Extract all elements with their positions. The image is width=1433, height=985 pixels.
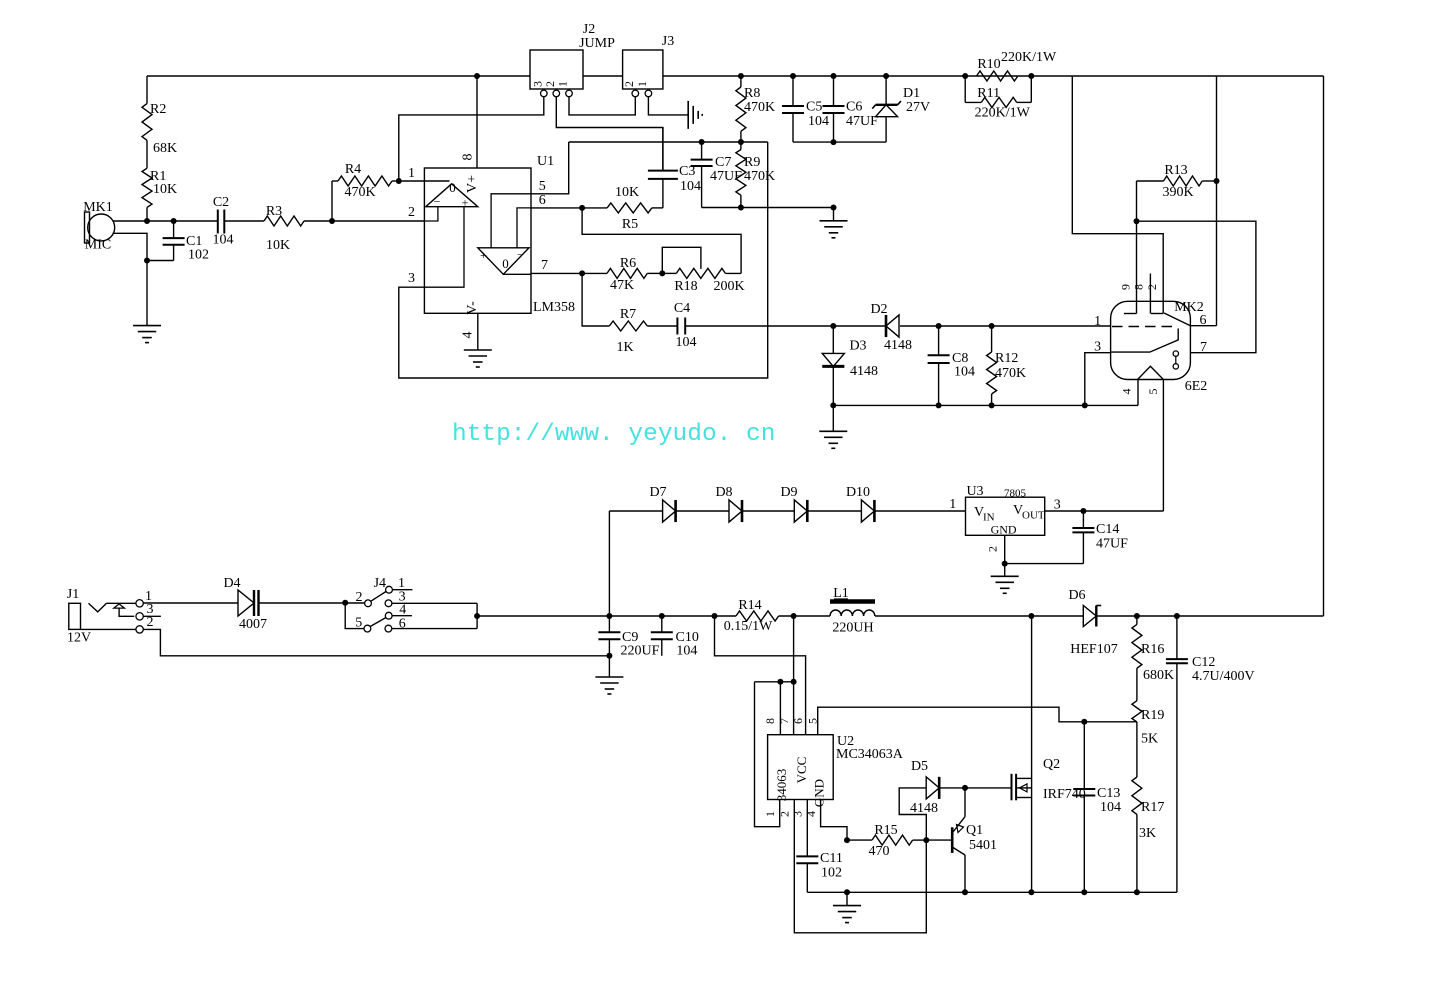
node U3 pin2 gnd <box>1002 561 1008 567</box>
node top rail D1 <box>883 73 889 79</box>
svg-text:104: 104 <box>954 365 975 380</box>
capacitor C12 <box>1166 616 1255 892</box>
svg-text:OUT: OUT <box>1022 510 1045 522</box>
svg-text:4148: 4148 <box>850 364 878 379</box>
ground mic <box>133 261 161 343</box>
diode D8 <box>715 485 742 522</box>
svg-text:104: 104 <box>808 114 829 129</box>
svg-text:R4: R4 <box>345 162 361 177</box>
node C13 bottom <box>1081 889 1087 895</box>
svg-text:3: 3 <box>791 811 805 817</box>
node D2 anode / D3 <box>830 323 836 329</box>
svg-text:7: 7 <box>1200 340 1207 355</box>
svg-text:MC34063A: MC34063A <box>836 747 904 762</box>
wire tube pin1 input <box>900 325 1111 327</box>
mosfet Q2 IRF740 <box>1012 757 1086 802</box>
transistor Q1 5401 <box>926 817 997 893</box>
svg-text:Q2: Q2 <box>1043 757 1060 772</box>
svg-text:4: 4 <box>461 332 476 339</box>
resistor R11 parallel loop <box>965 76 1031 121</box>
node R15 right / Q1 base <box>923 837 929 843</box>
wire tube pin6 to drop <box>1190 325 1216 327</box>
wire J1 pin2 ground run <box>81 629 610 655</box>
chip U2 MC34063A <box>763 718 904 817</box>
svg-text:104: 104 <box>680 179 701 194</box>
node R1 bottom / mic <box>144 218 150 224</box>
ground J3 sideways <box>688 101 702 129</box>
svg-text:0.15/1W: 0.15/1W <box>724 619 773 634</box>
svg-text:D4: D4 <box>223 576 240 591</box>
node C1 top tap <box>171 218 177 224</box>
wire C5/C6/D1 bottom rail <box>793 141 886 143</box>
svg-text:9: 9 <box>1119 284 1133 290</box>
svg-text:220UF: 220UF <box>621 644 660 659</box>
capacitor C3 <box>648 128 701 208</box>
node R15 left <box>844 837 850 843</box>
capacitor C10 <box>651 616 699 659</box>
ground main filter <box>595 656 623 694</box>
connector J1 12V <box>67 587 154 646</box>
svg-text:C4: C4 <box>674 301 690 316</box>
wire tube pin3 <box>1085 353 1111 406</box>
resistor R6 <box>582 256 662 293</box>
svg-text:+: + <box>462 196 469 210</box>
svg-text:R19: R19 <box>1141 708 1164 723</box>
node mic return / C1 bottom <box>144 258 150 264</box>
ground U1 pin 4 <box>461 313 492 367</box>
node R13 right on pin6 drop <box>1214 178 1220 184</box>
wire U1 pin6 <box>531 193 582 208</box>
svg-text:2: 2 <box>147 615 154 630</box>
wire U2 pin2 bottom loop <box>794 800 926 933</box>
wire J3 pin1 to ground <box>648 97 688 115</box>
svg-text:4007: 4007 <box>239 617 267 632</box>
svg-text:2: 2 <box>622 81 636 87</box>
capacitor C9 <box>598 616 659 659</box>
capacitor C4 <box>674 301 697 350</box>
svg-text:470K: 470K <box>344 185 375 200</box>
capacitor C13 <box>1073 722 1121 893</box>
resistor R7 <box>609 307 677 355</box>
diode D7 <box>649 485 675 522</box>
resistor R15 <box>847 823 926 859</box>
svg-text:4.7U/400V: 4.7U/400V <box>1192 669 1255 684</box>
svg-text:1: 1 <box>635 81 649 87</box>
resistor R2 <box>142 76 177 156</box>
regulator U3 7805 <box>949 484 1061 537</box>
node R12 top <box>989 323 995 329</box>
svg-text:V-: V- <box>465 301 480 315</box>
zener D1 <box>872 76 930 142</box>
svg-text:C12: C12 <box>1192 655 1215 670</box>
wire tube pin4 <box>1137 380 1139 406</box>
resistor R9 <box>736 142 775 208</box>
svg-text:GND: GND <box>991 523 1017 537</box>
svg-text:10K: 10K <box>153 182 177 197</box>
node R3 / R4 branch <box>329 218 335 224</box>
svg-text:U1: U1 <box>537 154 554 169</box>
svg-text:J1: J1 <box>67 587 79 602</box>
wire J2 pin2 to C3 <box>556 97 663 171</box>
svg-text:1: 1 <box>949 497 956 512</box>
svg-text:R15: R15 <box>874 823 897 838</box>
node top rail R8 <box>738 73 744 79</box>
diode D10 <box>846 485 874 522</box>
svg-text:J4: J4 <box>374 576 386 591</box>
svg-text:R2: R2 <box>150 102 166 117</box>
wire gate node <box>940 788 1011 817</box>
node R6 / R18 <box>659 270 665 276</box>
wire U1 pin1 <box>399 166 450 181</box>
node top rail R10 right <box>1028 73 1034 79</box>
svg-text:−: − <box>434 195 441 209</box>
jumper J2 <box>530 22 615 97</box>
svg-text:220K/1W: 220K/1W <box>1001 50 1057 65</box>
resistor R4 feedback <box>332 162 399 221</box>
wire U3 GND pin2 <box>985 535 1083 563</box>
node tube pin3/pin4 tie <box>1082 402 1088 408</box>
svg-text:102: 102 <box>821 866 842 881</box>
wire cathode rail <box>833 404 1138 406</box>
svg-text:7805: 7805 <box>1004 488 1027 500</box>
diode D6 HEF107 <box>1068 588 1117 657</box>
wire U1B internal pin5 to plus input <box>491 194 531 248</box>
op-amp U1B triangle <box>478 248 529 275</box>
wire D6 to B+ corner <box>1096 615 1323 617</box>
node R14 / L1 / U2 pin7 <box>791 613 797 619</box>
svg-text:6E2: 6E2 <box>1185 379 1208 394</box>
wire D7 riser from 12V rail <box>608 511 610 616</box>
svg-text:R11: R11 <box>977 86 1000 101</box>
diode D2 <box>870 302 912 353</box>
wire D4 to J4 <box>259 602 365 604</box>
svg-text:6: 6 <box>539 193 546 208</box>
wire U1B internal pin6 to minus input <box>517 208 531 248</box>
svg-text:0: 0 <box>449 180 456 195</box>
node pins 8-7 tie <box>777 679 783 685</box>
svg-text:200K: 200K <box>713 279 744 294</box>
svg-text:47UF: 47UF <box>1096 537 1128 552</box>
node top rail C6 <box>831 73 837 79</box>
wire anode riser to tube pin2/8 <box>1072 76 1163 314</box>
tube anode shape <box>1111 329 1179 353</box>
wire diode chain <box>609 510 965 512</box>
resistor R16 <box>1132 616 1174 701</box>
svg-text:MK1: MK1 <box>83 200 113 215</box>
svg-text:D3: D3 <box>849 339 866 354</box>
node R13 / pin7 branch <box>1134 218 1140 224</box>
tube pin7 contacts <box>1173 351 1178 369</box>
resistor R8 <box>736 76 775 142</box>
svg-text:R14: R14 <box>738 598 761 613</box>
node ground rail symbol <box>844 889 850 895</box>
svg-text:47K: 47K <box>610 278 634 293</box>
svg-text:1: 1 <box>763 811 777 817</box>
svg-text:R17: R17 <box>1141 800 1164 815</box>
svg-text:C7: C7 <box>715 155 731 170</box>
svg-text:2: 2 <box>985 546 999 552</box>
tube grid dashed line <box>1112 326 1178 328</box>
svg-text:220UH: 220UH <box>832 621 873 636</box>
svg-text:3K: 3K <box>1139 826 1156 841</box>
svg-text:5401: 5401 <box>969 838 997 853</box>
capacitor C2 <box>213 195 234 248</box>
wire R5 node loop to 200K right end <box>582 208 741 274</box>
node R12 bottom <box>989 402 995 408</box>
wire J2 pin3 to U1 pin1 <box>399 97 544 181</box>
svg-text:R10: R10 <box>977 57 1000 72</box>
wire J4 pin1 stub <box>392 589 412 591</box>
ground C5/C6 riser <box>820 208 848 238</box>
svg-text:+: + <box>480 248 487 262</box>
svg-text:2: 2 <box>778 811 792 817</box>
node C8 top <box>936 323 942 329</box>
svg-text:2: 2 <box>356 590 363 605</box>
wire VCC jog to U2 pin6 <box>715 616 806 735</box>
wire converter ground rail <box>807 891 1177 893</box>
resistor R12 <box>987 326 1027 405</box>
wire mic output to node <box>114 220 218 222</box>
svg-text:C2: C2 <box>213 195 229 210</box>
resistor R14 <box>724 598 779 634</box>
wire to tube pin 7 <box>1137 221 1256 353</box>
diode D5 loop from base node <box>899 788 926 840</box>
svg-text:−: − <box>517 248 524 262</box>
svg-text:R9: R9 <box>744 155 760 170</box>
svg-text:D8: D8 <box>715 485 732 500</box>
wire R13 left down to pin9 <box>1124 181 1137 314</box>
svg-text:470K: 470K <box>744 100 775 115</box>
svg-text:R13: R13 <box>1164 163 1187 178</box>
svg-text:D10: D10 <box>846 485 870 500</box>
diode D5 <box>910 759 939 816</box>
wire U1B output to pin7 <box>503 273 531 275</box>
resistor R17 <box>1132 722 1164 892</box>
wire U1 pin2 label <box>408 205 415 220</box>
wire L1 to Q2/D6 <box>779 615 1084 617</box>
svg-text:R6: R6 <box>620 256 636 271</box>
svg-text:U3: U3 <box>966 484 983 499</box>
svg-text:34063: 34063 <box>774 769 789 802</box>
svg-text:68K: 68K <box>153 141 177 156</box>
svg-text:104: 104 <box>676 335 697 350</box>
svg-text:470: 470 <box>869 844 890 859</box>
svg-text:3: 3 <box>1054 498 1061 513</box>
svg-text:4: 4 <box>804 811 818 817</box>
node Q2 source ground <box>1028 889 1034 895</box>
svg-text:HEF107: HEF107 <box>1070 642 1117 657</box>
tube MK2 6E2 envelope <box>1094 284 1207 395</box>
svg-text:R12: R12 <box>995 351 1018 366</box>
svg-text:R7: R7 <box>620 307 636 322</box>
diode D9 <box>780 485 807 522</box>
node pin7 riser tie <box>791 679 797 685</box>
node ground rail C9 <box>606 653 612 659</box>
wire B+ right tall drop <box>1323 76 1325 616</box>
svg-text:J3: J3 <box>662 34 674 49</box>
wire U1 outer loop pin3 <box>399 142 768 378</box>
resistor R1 <box>142 140 177 221</box>
svg-text:GND: GND <box>812 779 827 807</box>
capacitor C6 <box>823 76 879 142</box>
diode D4 4007 <box>223 576 267 632</box>
svg-text:2: 2 <box>408 205 415 220</box>
node top rail C5 <box>790 73 796 79</box>
svg-text:470K: 470K <box>744 169 775 184</box>
resistor R3 <box>264 204 304 253</box>
inductor L1 <box>830 586 875 636</box>
node Q2 drain tap <box>1028 613 1034 619</box>
svg-text:C14: C14 <box>1096 522 1119 537</box>
svg-text:2: 2 <box>1145 284 1159 290</box>
node pin7 / R6 / R7 <box>579 270 585 276</box>
wire pin7 node down to R7 <box>582 273 609 326</box>
node C7 top <box>699 139 705 145</box>
svg-text:LM358: LM358 <box>533 300 575 315</box>
wire U2 pin5 feedback <box>818 707 1137 735</box>
svg-text:5: 5 <box>355 616 362 631</box>
resistor R19 <box>1132 701 1164 747</box>
node C9 top <box>606 613 612 619</box>
svg-text:V+: V+ <box>465 175 480 193</box>
svg-text:470K: 470K <box>995 366 1026 381</box>
wire Q2 source drop <box>1031 798 1033 893</box>
svg-text:6: 6 <box>791 718 805 724</box>
node D5 cathode / gate <box>962 785 968 791</box>
svg-text:5: 5 <box>539 179 546 194</box>
svg-text:4: 4 <box>1120 389 1134 395</box>
capacitor C8 <box>928 326 975 405</box>
wire U2 pin7 riser <box>793 616 795 735</box>
svg-text:1: 1 <box>1094 314 1101 329</box>
node C12 top <box>1174 613 1180 619</box>
wire J2 pin1 to J3 pin2 <box>569 97 635 115</box>
svg-text:680K: 680K <box>1143 668 1174 683</box>
svg-text:7: 7 <box>777 718 791 724</box>
svg-text:0: 0 <box>502 256 509 271</box>
node R16 top <box>1134 613 1140 619</box>
svg-text:D9: D9 <box>780 485 797 500</box>
op-amp U1A triangle <box>426 180 478 210</box>
node top rail junction at U1 pin8 riser <box>474 73 480 79</box>
capacitor C5 <box>782 76 829 142</box>
wire C7/R9 rail <box>569 141 768 143</box>
node R17 bottom <box>1134 889 1140 895</box>
wire J4 pin3/pin6 tie <box>392 603 477 628</box>
wire U1A internal pin2 to minus input <box>424 207 438 221</box>
svg-text:1K: 1K <box>616 340 633 355</box>
svg-text:1: 1 <box>408 166 415 181</box>
wire U1 pin5 to C7 rail <box>531 142 569 194</box>
svg-text:10K: 10K <box>615 185 639 200</box>
wire top rail right drop to tube pin6 <box>1216 76 1218 326</box>
node D3 bottom <box>830 402 836 408</box>
node ground riser mid <box>831 205 837 211</box>
resistor R13 <box>1137 163 1217 200</box>
wire U1 pin7 <box>531 258 582 273</box>
wire pins 1-8 tie bar <box>755 682 794 827</box>
wire C4 to D2/D3 node <box>685 325 886 327</box>
svg-text:47UF: 47UF <box>710 169 742 184</box>
svg-text:27V: 27V <box>906 100 930 115</box>
svg-text:5: 5 <box>806 718 820 724</box>
resistor R18 with wiper loop <box>662 247 744 294</box>
node C10 top <box>659 613 665 619</box>
svg-text:4148: 4148 <box>884 338 912 353</box>
wire tube pin8 stub <box>1149 274 1151 314</box>
node D4 out / J4 pins 2,5 <box>342 600 348 606</box>
op-amp U1 box <box>424 154 575 315</box>
node top rail R10 left <box>962 73 968 79</box>
wire B+ top rail <box>147 75 1324 77</box>
ground converter <box>833 892 861 922</box>
svg-text:8: 8 <box>763 718 777 724</box>
node C5C6 rail to ground riser <box>831 139 837 145</box>
svg-text:D5: D5 <box>911 759 928 774</box>
wire C2 to R3 <box>224 220 264 222</box>
svg-text:8: 8 <box>1132 284 1146 290</box>
wire U2 pin4 to R15 node <box>821 800 847 841</box>
capacitor C7 <box>691 142 743 208</box>
svg-text:VCC: VCC <box>794 757 809 784</box>
node C8 bottom <box>936 402 942 408</box>
svg-text:4148: 4148 <box>910 801 938 816</box>
node R9 bottom <box>738 205 744 211</box>
wire R3 to U1 pin2 <box>304 220 424 222</box>
svg-text:8: 8 <box>461 154 476 161</box>
svg-text:D6: D6 <box>1068 588 1085 603</box>
node pin6 / R5 <box>579 205 585 211</box>
svg-text:MIC: MIC <box>85 238 111 253</box>
svg-text:http://www. yeyudo. cn: http://www. yeyudo. cn <box>452 421 775 448</box>
svg-text:R5: R5 <box>622 217 638 232</box>
svg-text:D2: D2 <box>870 302 887 317</box>
ground U3 <box>991 564 1019 594</box>
watermark <box>452 421 775 448</box>
svg-text:104: 104 <box>1100 800 1121 815</box>
svg-text:3: 3 <box>408 271 415 286</box>
jumper J3 <box>622 34 674 97</box>
svg-text:12V: 12V <box>67 631 91 646</box>
svg-text:C5: C5 <box>806 100 822 115</box>
svg-text:R8: R8 <box>744 86 760 101</box>
svg-text:C11: C11 <box>820 851 843 866</box>
svg-text:R16: R16 <box>1141 642 1164 657</box>
wire U3 output <box>1045 510 1164 512</box>
wire J1 pin1 to D4 <box>143 602 238 604</box>
capacitor C1 <box>147 221 209 263</box>
microphone MK1 <box>83 200 114 253</box>
wire J4 pin5 branch <box>345 603 364 629</box>
svg-text:D1: D1 <box>903 86 920 101</box>
wire J4 pin4 stub <box>392 615 412 617</box>
node Q1 collector ground <box>962 889 968 895</box>
switch J4 <box>355 576 406 632</box>
svg-text:C13: C13 <box>1097 786 1120 801</box>
wire tube pin5 heater drop <box>1162 380 1164 512</box>
svg-text:7: 7 <box>541 258 548 273</box>
wire C7/R9 bottom rail <box>702 207 834 209</box>
tube pin6 target slant <box>1164 313 1190 326</box>
resistor R10 <box>977 50 1057 81</box>
svg-text:10K: 10K <box>266 238 290 253</box>
svg-text:1: 1 <box>556 81 570 87</box>
tube filament <box>1138 366 1164 379</box>
node U3 out / C14 <box>1080 508 1086 514</box>
node U1 pin1 <box>396 178 402 184</box>
wire Q2 drain riser <box>1031 616 1033 778</box>
wire 12V rail to R14 <box>477 615 736 617</box>
